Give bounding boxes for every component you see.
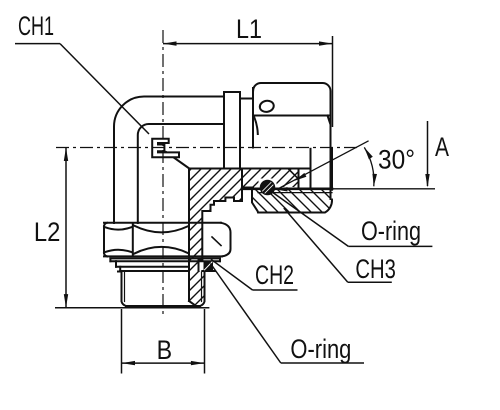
stud thread minor right bbox=[201, 272, 203, 302]
chamfer to section corner bbox=[166, 152, 189, 168]
CH2 nut left edge bbox=[104, 223, 107, 226]
stud bore end chamfer bbox=[189, 301, 196, 306]
L1 left arrow bbox=[163, 41, 177, 45]
CH3 leader bbox=[284, 208, 348, 282]
thread seat line thick bbox=[242, 188, 332, 191]
CH1 leader bbox=[60, 44, 149, 134]
CH2 underline bbox=[253, 289, 298, 291]
stud bottom edge bbox=[126, 305, 200, 307]
washer mid line bbox=[110, 260, 220, 262]
body stepped lower profile bbox=[202, 169, 242, 260]
washer step left bbox=[115, 261, 117, 267]
stud top shoulder bbox=[118, 271, 122, 273]
svg-text:30°: 30° bbox=[378, 145, 415, 175]
washer lower line bbox=[116, 266, 189, 268]
swivel nut marking ellipse bbox=[259, 100, 275, 113]
seat cone edge bbox=[289, 170, 299, 180]
carrier line bbox=[120, 270, 189, 272]
dimension L2 line bbox=[65, 148, 67, 308]
horizontal centerline bbox=[56, 147, 357, 149]
30 degree line bbox=[277, 141, 369, 190]
svg-text:L2: L2 bbox=[34, 217, 61, 247]
body section region fill bbox=[189, 169, 299, 307]
bore wall vertical arm bbox=[188, 169, 190, 302]
O-ring seal black square bbox=[204, 261, 214, 271]
CH2 leader bbox=[211, 259, 253, 290]
washer left edge bbox=[109, 258, 111, 261]
washer right edge bbox=[219, 258, 221, 261]
L2 bottom arrow bbox=[64, 294, 68, 308]
carrier left edge bbox=[119, 267, 121, 271]
B left arrow bbox=[122, 361, 136, 365]
B right arrow bbox=[191, 361, 205, 365]
dimension and leader lines bbox=[15, 36, 435, 374]
L1 right arrow bbox=[319, 41, 333, 45]
CH2 nut middle facet arcs bbox=[134, 226, 189, 233]
svg-text:A: A bbox=[435, 132, 449, 162]
collar top edge bbox=[224, 91, 240, 93]
collar left face bbox=[223, 92, 225, 169]
swivel nut top edge bbox=[253, 83, 331, 199]
30 line arrow bbox=[295, 173, 307, 181]
L2 top arrow bbox=[64, 148, 68, 162]
nut thread end wall bbox=[331, 149, 333, 190]
swivel nut lower band outline bbox=[252, 190, 332, 213]
L2 bottom extension bbox=[55, 307, 209, 309]
CH2 nut right part chamfer bbox=[221, 223, 231, 257]
CH3 underline bbox=[348, 281, 392, 283]
svg-text:CH2: CH2 bbox=[255, 260, 294, 290]
stud outer right bbox=[200, 272, 205, 307]
dimension L1 line bbox=[163, 43, 333, 45]
body elbow inner line bbox=[138, 124, 224, 223]
svg-text:O-ring: O-ring bbox=[290, 334, 351, 364]
body elbow outer corner arc bbox=[114, 97, 224, 224]
O-ring bottom leader bbox=[211, 264, 281, 364]
swivel nut left chamfer arc bbox=[254, 117, 258, 135]
swivel nut right chamfer line bbox=[328, 116, 331, 125]
bore edge horizontal (tube inner wall) bbox=[189, 168, 311, 170]
svg-text:B: B bbox=[157, 335, 173, 365]
CH2 nut bottom edge bbox=[104, 255, 222, 257]
svg-text:CH3: CH3 bbox=[355, 254, 396, 284]
B left extension bbox=[121, 309, 123, 374]
dimension B line bbox=[122, 362, 205, 364]
A extension horizontal bbox=[332, 188, 435, 190]
stud outer left bbox=[122, 272, 127, 307]
retaining clip feature CH1 bbox=[152, 139, 179, 158]
A bottom arrow bbox=[425, 174, 429, 188]
washer top line bbox=[110, 257, 220, 259]
CH1 underline bbox=[15, 43, 60, 45]
B right extension bbox=[204, 309, 206, 374]
O-ring top underline bbox=[348, 245, 432, 247]
body waist at seal groove bbox=[199, 260, 203, 272]
CH2 nut right facet arc bbox=[212, 237, 221, 246]
O-ring top leader bbox=[270, 191, 348, 247]
carrier line right bbox=[202, 270, 215, 272]
thread seat minor line bbox=[258, 192, 332, 194]
tube end face bbox=[298, 169, 300, 188]
svg-text:CH1: CH1 bbox=[18, 11, 54, 41]
tube spigot top edge bbox=[240, 98, 253, 100]
swivel nut facet line bbox=[254, 115, 331, 117]
dimension A line bbox=[427, 121, 429, 186]
O-ring bottom underline bbox=[281, 362, 364, 364]
L1 right extension bbox=[332, 36, 334, 127]
O-ring groove white bbox=[259, 179, 277, 189]
arc top arrow bbox=[364, 147, 373, 159]
CH2 hex nut top edge bbox=[104, 222, 221, 224]
centerlines bbox=[56, 30, 357, 316]
stud thread minor left bbox=[124, 272, 126, 302]
collar right face bbox=[239, 92, 241, 169]
O-ring dot bbox=[261, 181, 275, 195]
arc bottom arrow bbox=[372, 174, 377, 187]
seat line arrow bbox=[275, 187, 288, 191]
30 degree arc bbox=[364, 147, 374, 186]
arrowheads bbox=[64, 41, 430, 365]
svg-text:L1: L1 bbox=[236, 14, 262, 44]
vertical centerline bbox=[162, 30, 164, 316]
CH2 nut facet line bbox=[132, 224, 134, 256]
tube outer line to nut bbox=[242, 187, 253, 189]
CH2 nut left facet arcs bbox=[105, 227, 132, 229]
swivel nut section lower band fill bbox=[252, 190, 332, 213]
nut recess inner wall bbox=[310, 149, 312, 187]
svg-text:O-ring: O-ring bbox=[361, 216, 421, 246]
swivel nut left edge bbox=[252, 88, 254, 148]
